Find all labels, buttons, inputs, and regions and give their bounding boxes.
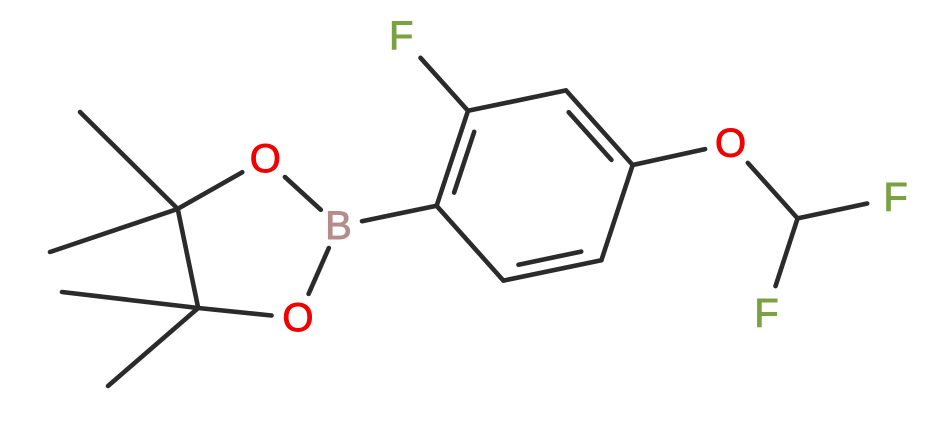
svg-text:F: F <box>754 292 778 336</box>
svg-text:O: O <box>715 122 746 166</box>
svg-text:F: F <box>389 14 413 58</box>
svg-text:B: B <box>325 204 352 248</box>
svg-text:F: F <box>883 175 907 219</box>
svg-text:O: O <box>250 137 281 181</box>
svg-text:O: O <box>282 296 313 340</box>
